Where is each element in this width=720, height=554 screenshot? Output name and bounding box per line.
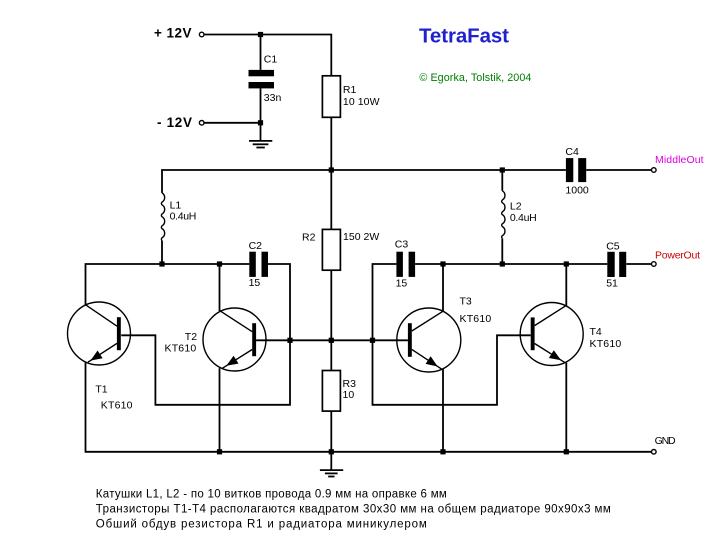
wire C4 to MiddleOut	[586, 169, 651, 171]
wire R1 bottom to top rail	[330, 117, 332, 170]
svg-text:Транзисторы Т1-Т4 располагаютс: Транзисторы Т1-Т4 располагаются квадрато…	[96, 504, 611, 516]
terminal +12V	[199, 32, 204, 37]
wire T3 emitter lead	[442, 369, 444, 452]
svg-text:L2: L2	[510, 200, 522, 212]
junction T4 collector	[564, 261, 569, 266]
junction base/R2R3	[329, 338, 334, 343]
svg-text:T4: T4	[590, 326, 602, 338]
junction L2 bottom	[500, 261, 505, 266]
terminal -12V	[199, 121, 204, 126]
wire mid rail right	[415, 263, 607, 265]
junction L2 top rail	[500, 167, 505, 172]
resistor R3	[322, 371, 340, 412]
wire R3 bottom lead	[330, 411, 332, 452]
svg-text:KT610: KT610	[590, 338, 622, 350]
capacitor C1	[249, 70, 275, 89]
resistor R2	[322, 229, 340, 270]
ground symbol (bottom)	[320, 452, 343, 477]
wire C5 to PowerOut	[626, 263, 651, 265]
svg-text:33n: 33n	[264, 92, 282, 104]
wire mid rail left (T1 collector corner to C2)	[86, 264, 250, 305]
capacitor C3	[396, 252, 415, 277]
wire -12V	[204, 122, 260, 124]
svg-text:150 2W: 150 2W	[343, 231, 379, 243]
svg-text:Обший обдув резистора R1 и рад: Обший обдув резистора R1 и радиатора мин…	[96, 519, 427, 531]
svg-text:KT610: KT610	[165, 343, 197, 355]
svg-text:10: 10	[343, 389, 355, 401]
svg-text:TetraFast: TetraFast	[419, 24, 509, 47]
transistor T2	[203, 308, 266, 371]
junction R3 bottom	[329, 449, 334, 454]
capacitor C4	[566, 158, 586, 182]
wire C2 right / base loop to T1 base	[121, 264, 290, 405]
inductor L1	[161, 193, 164, 241]
svg-text:© Egorka, Tolstik, 2004: © Egorka, Tolstik, 2004	[419, 72, 531, 84]
wire top rail	[162, 170, 566, 193]
junction base/C3 loop	[370, 338, 375, 343]
svg-text:R1: R1	[343, 84, 357, 96]
svg-text:R2: R2	[302, 231, 316, 243]
wire L1 bottom lead	[161, 241, 163, 265]
svg-text:C3: C3	[395, 238, 409, 250]
svg-text:Катушки L1, L2 - по 10 витков: Катушки L1, L2 - по 10 витков провода 0.…	[96, 489, 447, 501]
wire T4 collector lead	[565, 264, 567, 306]
junction +12V/C1 node	[258, 32, 263, 37]
junction T3 collector	[440, 261, 445, 266]
junction T2 emitter bottom	[217, 449, 222, 454]
svg-text:- 12V: - 12V	[157, 115, 192, 130]
svg-text:C5: C5	[606, 240, 620, 252]
svg-text:51: 51	[606, 278, 618, 290]
wire R3 top lead	[330, 340, 332, 370]
wire T2 collector lead	[219, 264, 221, 311]
svg-text:0.4uH: 0.4uH	[170, 210, 197, 222]
capacitor C2	[249, 252, 268, 277]
svg-text:0.4uH: 0.4uH	[510, 212, 537, 224]
svg-text:GND: GND	[655, 435, 676, 447]
junction T3 emitter bottom	[440, 449, 445, 454]
svg-text:T3: T3	[460, 295, 472, 307]
wire T2 emitter lead	[219, 368, 221, 452]
svg-text:MiddleOut: MiddleOut	[655, 154, 704, 166]
svg-text:T1: T1	[95, 383, 107, 395]
transistor T1	[68, 302, 131, 365]
resistor R1	[322, 76, 340, 118]
svg-text:15: 15	[396, 277, 408, 289]
wire +12V rail to R1 top	[204, 35, 331, 76]
svg-text:C4: C4	[565, 146, 579, 158]
capacitor C5	[607, 252, 626, 277]
svg-text:+ 12V: + 12V	[154, 26, 192, 41]
svg-text:KT610: KT610	[460, 313, 492, 325]
wire T3 collector lead	[442, 264, 444, 311]
terminal MiddleOut	[652, 168, 657, 173]
wire T1 emitter + bottom rail to GND	[86, 362, 652, 452]
wire T4 emitter lead	[565, 363, 567, 452]
wire L2 top lead	[501, 170, 503, 191]
junction T2 collector / C2	[217, 261, 222, 266]
transistor T3	[397, 308, 461, 372]
inductor L2	[502, 191, 505, 239]
svg-text:C1: C1	[264, 54, 278, 66]
wire to ground stub	[260, 123, 262, 140]
wire base rail T2 to T3	[256, 339, 408, 341]
svg-text:PowerOut: PowerOut	[655, 250, 700, 262]
junction base/C2 loop	[287, 338, 292, 343]
wire R2 top lead	[330, 170, 332, 229]
terminal GND	[652, 450, 657, 455]
ground symbol (C1)	[249, 141, 272, 148]
svg-text:1000: 1000	[565, 185, 589, 197]
wire R2 bottom lead	[330, 270, 332, 340]
terminal PowerOut	[652, 262, 657, 267]
junction T4 emitter bottom	[564, 449, 569, 454]
svg-text:15: 15	[249, 277, 261, 289]
wire C3 left / T4 base loop	[373, 264, 531, 405]
junction R1 top rail	[329, 167, 334, 172]
svg-text:KT610: KT610	[101, 400, 133, 412]
svg-text:C2: C2	[249, 240, 263, 252]
junction C1/-12V node	[258, 120, 263, 125]
svg-text:10 10W: 10 10W	[343, 96, 380, 108]
junction L1 bottom	[159, 261, 164, 266]
wire C1 top lead	[260, 35, 262, 70]
svg-text:T2: T2	[185, 331, 197, 343]
wire C1 bottom lead	[260, 88, 262, 122]
wire L2 bottom lead	[501, 238, 503, 264]
transistor T4	[520, 303, 583, 366]
